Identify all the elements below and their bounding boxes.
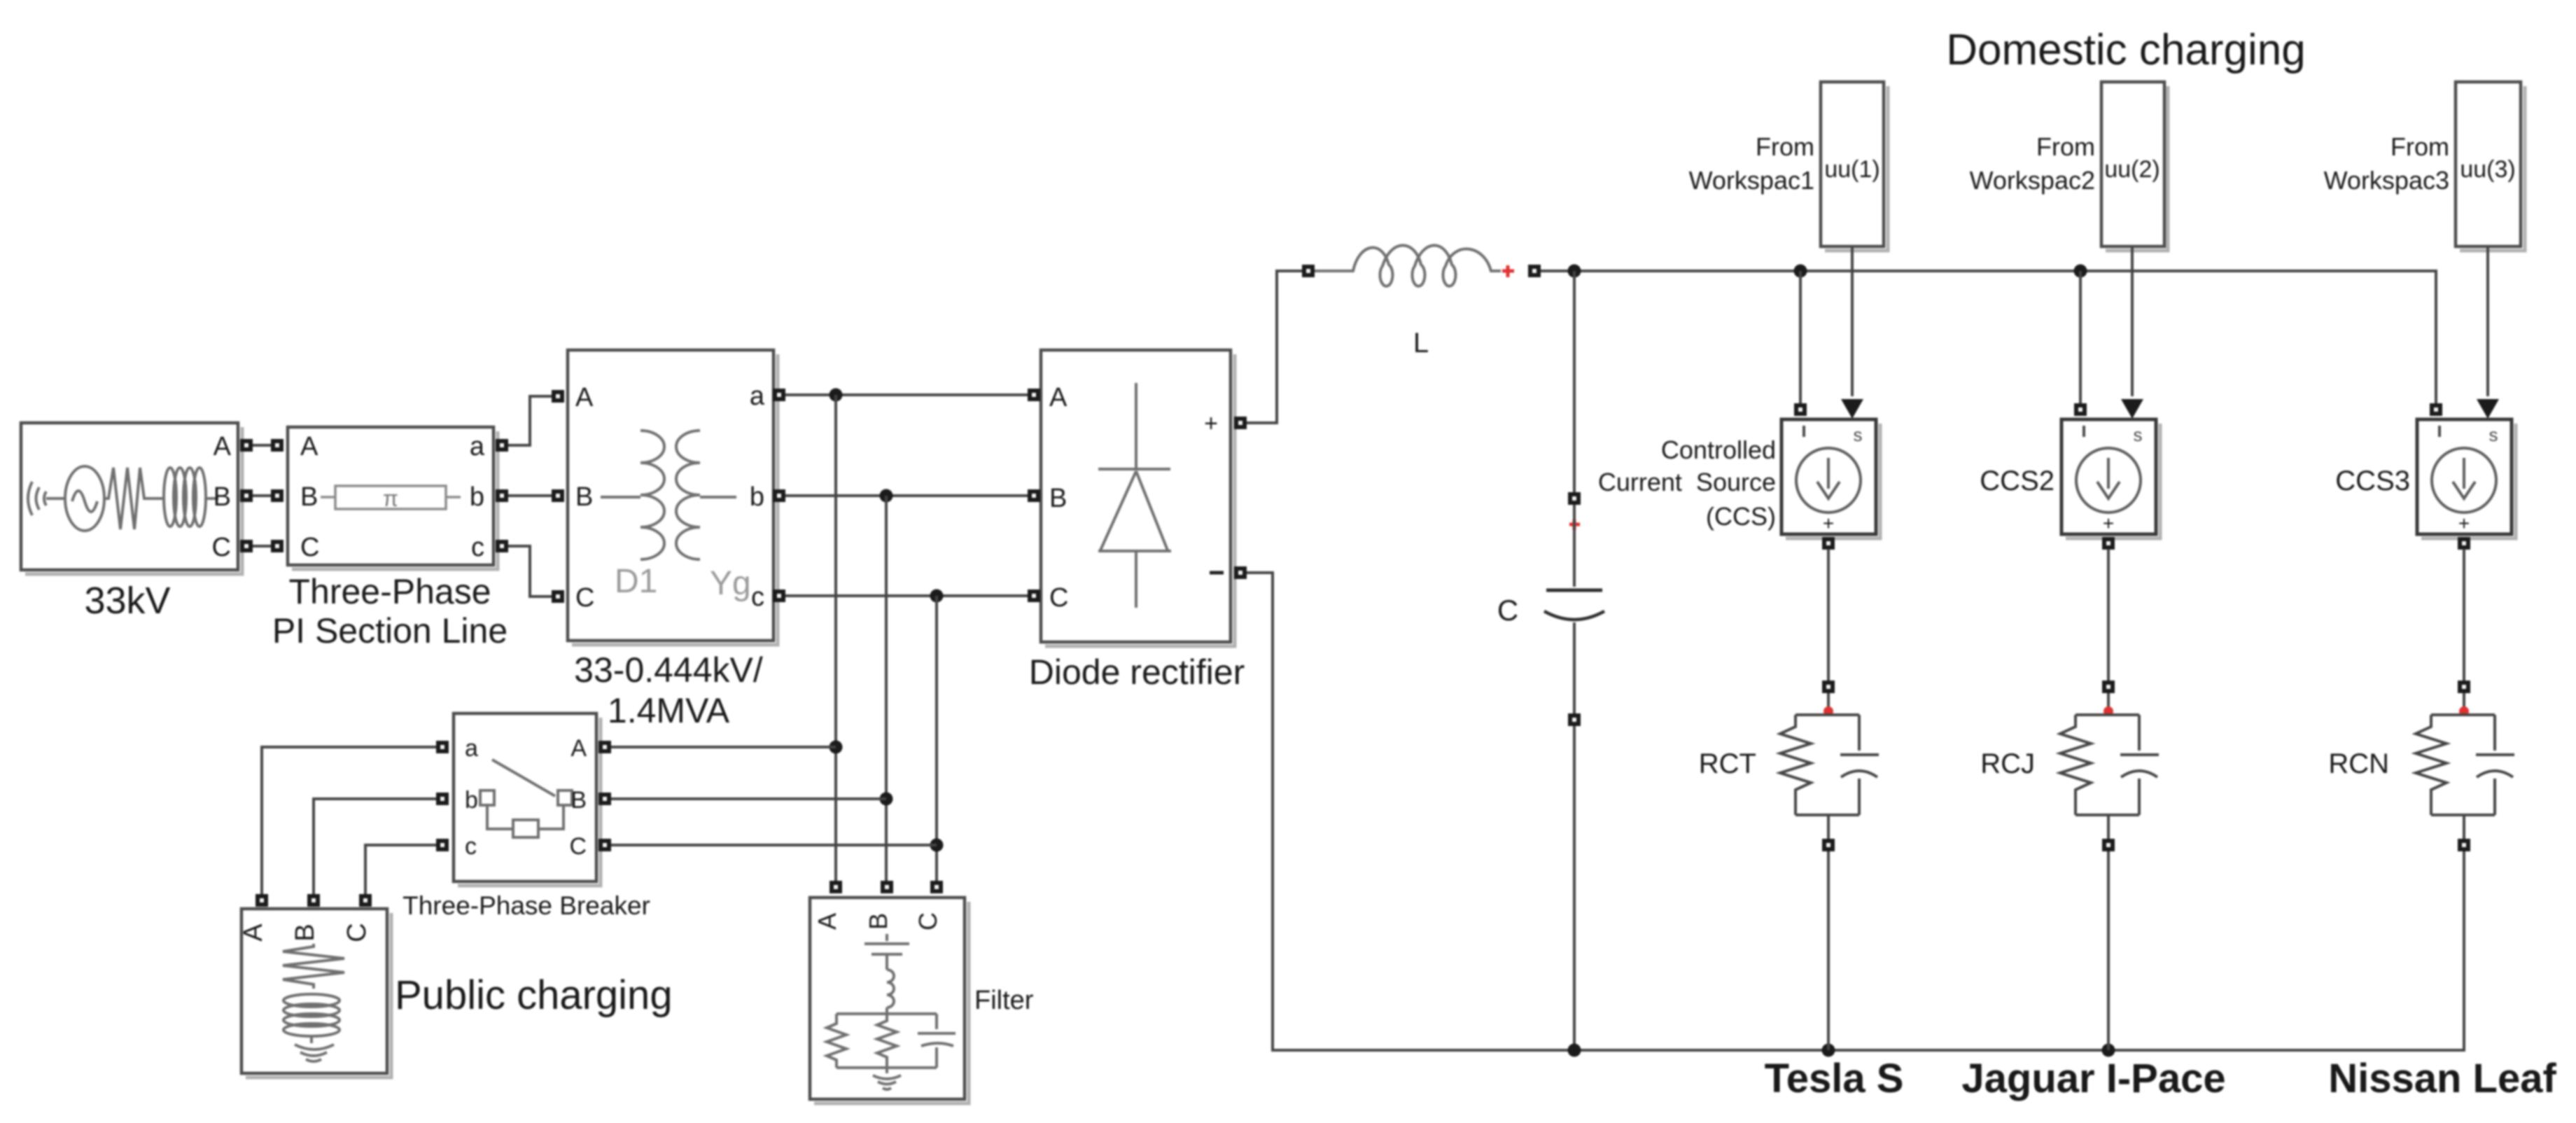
junction phase a with breaker A (829, 741, 843, 754)
svg-text:PI Section Line: PI Section Line (272, 611, 507, 650)
diode rectifier block (1028, 350, 1247, 692)
wire capacitor top lead (1573, 271, 1576, 492)
breaker switch icon (492, 760, 555, 796)
port out of CCS1 (1822, 537, 1835, 550)
port c of transformer (773, 590, 785, 602)
svg-text:Jaguar I-Pace: Jaguar I-Pace (1961, 1056, 2225, 1101)
wire breaker B to filter column b (611, 797, 886, 800)
RCN capacitor (2476, 715, 2514, 815)
transformer primary winding (601, 496, 640, 498)
33kV source icon inductor (148, 497, 162, 500)
controlled current source CCS1 (1598, 403, 1880, 550)
junction node capacitor on minus bus (1568, 1044, 1581, 1057)
svg-text:CCS3: CCS3 (2335, 466, 2410, 496)
wire capacitor bottom lead to DC minus bus (1573, 726, 1576, 1050)
wire transformer a to rectifier A (785, 393, 1028, 396)
port A of transformer (552, 390, 564, 403)
port 1 of CCS2 (2074, 403, 2087, 416)
wire bus tap to CCS1 plus (1799, 271, 1802, 404)
svg-text:+: + (2458, 512, 2470, 534)
block Three-Phase Breaker (402, 713, 650, 920)
junction phase c with breaker C (930, 839, 944, 852)
wire CCS2 to RCJ load (2107, 549, 2110, 681)
svg-text:From: From (1756, 132, 1814, 161)
svg-text:B: B (864, 913, 892, 930)
wire public charging B up to breaker b (314, 799, 436, 894)
port C of breaker (598, 839, 611, 851)
port C of filter (930, 881, 943, 893)
svg-text:Diode rectifier: Diode rectifier (1029, 653, 1245, 692)
wire RCJ to port (2107, 815, 2110, 839)
port C of PI line (271, 540, 283, 552)
current measurement marker red plus of L (1502, 265, 1514, 277)
pin label 1 of CCS3 (2438, 426, 2441, 437)
svg-text:RCN: RCN (2328, 748, 2389, 779)
wire rectifier plus to inductor L (1247, 271, 1302, 423)
svg-text:RCJ: RCJ (1980, 748, 2035, 779)
port C of rectifier (1028, 590, 1040, 602)
pin label 1 of CCS2 (2082, 426, 2085, 437)
svg-text:b: b (465, 787, 478, 814)
wire From Workspace3 to CCS3 signal input (2486, 246, 2489, 396)
wire breaker A to filter column a (611, 746, 836, 748)
svg-text:Tesla S: Tesla S (1765, 1056, 1904, 1101)
port B of breaker (598, 793, 611, 805)
port top of RCT (1822, 681, 1835, 693)
port left of inductor L (1302, 265, 1315, 277)
svg-text:B: B (570, 787, 587, 814)
wire phase c drop to breaker/filter row (935, 596, 938, 881)
load RCJ parallel RC (1980, 715, 2159, 815)
33kV source icon resistor (104, 468, 148, 529)
svg-text:33kV: 33kV (84, 580, 170, 622)
junction node a (829, 389, 843, 402)
RCT capacitor (1840, 715, 1879, 815)
svg-text:A: A (575, 383, 594, 412)
svg-text:π: π (383, 486, 398, 511)
svg-text:Workspac2: Workspac2 (1970, 166, 2095, 195)
wire public charging C up to breaker c (365, 845, 436, 894)
svg-text:uu(1): uu(1) (1824, 156, 1879, 183)
wire 33kV A to PI A (253, 444, 272, 447)
junction node capacitor tap (1568, 265, 1581, 278)
wire transformer c to rectifier C (785, 594, 1028, 597)
svg-text:L: L (1413, 328, 1429, 358)
port c of PI line (496, 540, 508, 552)
block From Workspace3 (2324, 82, 2525, 251)
capacitor C symbol (1573, 505, 1576, 587)
transformer block 33-0.444kV/1.4MVA (552, 350, 785, 730)
svg-text:s: s (2489, 424, 2498, 445)
port bottom of capacitor C (1568, 713, 1581, 726)
svg-text:RCT: RCT (1699, 748, 1756, 779)
filter parallel inductor branch (877, 1014, 897, 1068)
wire into RCN (2463, 693, 2465, 715)
block Three-Phase PI Section Line (271, 427, 508, 650)
load RCT parallel RC (1699, 715, 1879, 815)
wire CCS1 to RCT load (1827, 549, 1830, 681)
33kV source icon sine source (46, 497, 64, 500)
svg-text:+: + (1823, 512, 1834, 534)
svg-text:a: a (750, 382, 765, 411)
block Public charging source (239, 894, 673, 1077)
svg-text:b: b (750, 482, 764, 512)
svg-text:C: C (913, 912, 942, 930)
svg-text:C: C (212, 533, 231, 562)
svg-text:s: s (1854, 424, 1863, 445)
port bottom of RCN (2458, 839, 2470, 851)
wire DC minus bus (1247, 573, 2464, 1050)
svg-text:From: From (2036, 132, 2095, 161)
svg-text:33-0.444kV/: 33-0.444kV/ (574, 650, 763, 690)
port bottom of RCT (1822, 839, 1835, 851)
wire RCT to port (1827, 815, 1830, 839)
port B of 33kV (240, 489, 253, 502)
RCN resistor (2416, 715, 2446, 815)
port A of PI line (271, 439, 283, 452)
wire PI b to transformer B (508, 494, 552, 497)
wire transformer b to rectifier B (785, 494, 1028, 497)
port B of transformer (552, 489, 564, 502)
junction node c (930, 590, 944, 603)
wire bus tap to CCS2 plus (2079, 271, 2082, 404)
block From Workspace2 (1970, 82, 2168, 251)
controlled current source CCS3 (2335, 403, 2516, 550)
filter ground (873, 1068, 901, 1089)
junction node CCS1 tap (1794, 265, 1807, 278)
block Filter (810, 881, 1034, 1103)
public charging icon ground arcs (rotated) (295, 1036, 334, 1061)
svg-text:B: B (213, 482, 231, 512)
svg-text:B: B (1049, 484, 1067, 513)
port A of 33kV (240, 439, 253, 452)
wire into RCT (1827, 693, 1830, 715)
filter parallel resistor branch (827, 1014, 846, 1068)
svg-text:C: C (1049, 583, 1068, 613)
arrowhead into CCS2 (2121, 399, 2143, 419)
public charging icon inductor (rotated) (283, 994, 339, 1007)
wire 33kV C to PI C (253, 545, 272, 547)
wire From Workspace2 to CCS2 signal input (2131, 246, 2134, 396)
port C of public charging (359, 894, 372, 907)
current marker red dot RCJ (2103, 706, 2113, 716)
arrowhead into CCS (1841, 399, 1863, 419)
svg-text:A: A (213, 432, 232, 461)
port a of PI line (496, 439, 508, 452)
filter series capacitor (864, 934, 909, 970)
wire CCS3 to RCN load (2463, 549, 2465, 681)
svg-text:Three-Phase Breaker: Three-Phase Breaker (402, 891, 650, 920)
source block 33kV (21, 423, 253, 622)
RCJ capacitor (2120, 715, 2159, 815)
svg-text:b: b (470, 482, 484, 512)
33kV source icon ground arcs (28, 482, 46, 515)
inductor L coil (1315, 245, 1501, 286)
port C of 33kV (240, 540, 253, 552)
wire PI c to transformer C (508, 546, 552, 597)
junction node b (880, 489, 893, 503)
svg-text:Workspac3: Workspac3 (2324, 166, 2449, 195)
wire breaker C to filter column c (611, 844, 937, 846)
port B of PI line (271, 489, 283, 502)
port plus of rectifier (1234, 417, 1247, 429)
port 1 of CCS1 (1794, 403, 1807, 416)
wire RCN to port (2463, 815, 2465, 839)
pin label - of rectifier (1210, 571, 1224, 575)
port out of CCS3 (2458, 537, 2470, 550)
svg-text:Three-Phase: Three-Phase (288, 572, 491, 611)
port a of breaker (436, 741, 449, 753)
svg-text:c: c (471, 533, 484, 562)
port A of filter (829, 881, 842, 893)
svg-text:s: s (2134, 424, 2143, 445)
junction node Jaguar load on minus bus (2102, 1044, 2115, 1057)
wire RCJ to minus bus (2107, 851, 2110, 1050)
block From Workspace1 (1689, 82, 1888, 251)
svg-text:Public charging: Public charging (395, 972, 673, 1018)
svg-text:C: C (569, 833, 587, 860)
port top of RCN (2458, 681, 2470, 693)
svg-text:A: A (300, 432, 318, 461)
transformer secondary winding (676, 431, 700, 559)
svg-text:1.4MVA: 1.4MVA (608, 691, 730, 730)
load RCN parallel RC (2328, 715, 2514, 815)
wire phase b drop to breaker/filter row (885, 496, 888, 881)
port bottom of RCJ (2102, 839, 2115, 851)
svg-text:A: A (813, 913, 841, 930)
svg-text:c: c (465, 833, 477, 860)
port top of RCJ (2102, 681, 2115, 693)
wire RCT to minus bus (1827, 851, 1830, 1050)
svg-text:+: + (1204, 410, 1218, 437)
filter parallel capacitor branch (918, 1014, 955, 1068)
diode symbol (1098, 383, 1171, 608)
PI line icon (321, 496, 461, 498)
port A of rectifier (1028, 389, 1040, 401)
wire into RCJ (2107, 693, 2110, 715)
svg-text:uu(3): uu(3) (2460, 156, 2515, 183)
port top of capacitor C (1568, 492, 1581, 505)
current marker red dot RCT (1823, 706, 1833, 716)
svg-text:Yg: Yg (710, 565, 751, 602)
pin label 1 of CCS1 (1802, 426, 1805, 437)
controlled current source CCS2 (1980, 403, 2160, 550)
port B of filter (881, 881, 893, 893)
wire From Workspace1 to CCS signal input (1851, 246, 1854, 396)
svg-text:a: a (470, 432, 485, 461)
port C of transformer (552, 590, 564, 603)
port b of breaker (436, 793, 449, 805)
port B of public charging (307, 894, 320, 907)
port b of transformer (773, 489, 785, 502)
CCS1 source circle (1796, 448, 1861, 512)
junction node CCS2 tap (2074, 265, 2087, 278)
svg-text:C: C (342, 923, 372, 942)
wire 33kV B to PI B (253, 494, 272, 497)
svg-text:C: C (300, 533, 319, 562)
svg-text:From: From (2390, 132, 2449, 161)
port right of inductor L (1528, 265, 1541, 277)
svg-text:(CCS): (CCS) (1706, 502, 1776, 531)
port A of breaker (598, 741, 611, 753)
port minus of rectifier (1234, 566, 1247, 579)
arrowhead into CCS3 (2477, 399, 2499, 419)
svg-text:D1: D1 (615, 563, 657, 600)
svg-text:CCS2: CCS2 (1980, 466, 2054, 496)
svg-text:A: A (239, 923, 268, 942)
svg-text:uu(2): uu(2) (2104, 156, 2159, 183)
port out of CCS2 (2102, 537, 2115, 550)
CCS2 source circle (2076, 448, 2141, 512)
current marker red plus of capacitor (1569, 519, 1580, 530)
port a of transformer (773, 389, 785, 401)
junction node Tesla load on minus bus (1822, 1044, 1835, 1057)
port b of PI line (496, 489, 508, 502)
svg-text:C: C (1497, 594, 1518, 627)
svg-text:Workspac1: Workspac1 (1689, 166, 1814, 195)
svg-text:B: B (300, 482, 318, 512)
public charging icon resistor (rotated) (283, 944, 344, 989)
wire public charging A up to breaker a (262, 747, 436, 894)
port A of public charging (255, 894, 268, 907)
RCT resistor (1780, 715, 1811, 815)
svg-text:+: + (2103, 512, 2114, 534)
svg-text:Nissan Leaf: Nissan Leaf (2328, 1056, 2556, 1101)
wire phase a drop to breaker/filter row (834, 395, 837, 881)
RCJ resistor (2060, 715, 2091, 815)
filter series inductor (887, 970, 894, 1014)
svg-text:Controlled: Controlled (1661, 435, 1776, 464)
svg-text:C: C (575, 583, 594, 613)
svg-text:B: B (575, 482, 593, 512)
port c of breaker (436, 839, 449, 851)
svg-text:c: c (751, 583, 764, 612)
svg-text:a: a (465, 735, 478, 762)
svg-text:A: A (1049, 383, 1067, 412)
CCS3 source circle (2432, 448, 2496, 512)
svg-text:A: A (570, 735, 587, 762)
svg-text:Filter: Filter (974, 986, 1034, 1015)
svg-text:Current Source: Current Source (1598, 468, 1776, 496)
wire DC plus bus (1541, 271, 2436, 403)
port B of rectifier (1028, 489, 1040, 502)
wire PI a to transformer A (508, 396, 552, 445)
svg-text:Domestic charging: Domestic charging (1946, 26, 2305, 74)
port 1 of CCS3 (2430, 403, 2442, 416)
junction phase b with breaker B (880, 793, 893, 806)
svg-text:B: B (290, 923, 320, 941)
filter parallel RLC box (836, 1014, 937, 1068)
current marker red dot RCN (2459, 706, 2469, 716)
